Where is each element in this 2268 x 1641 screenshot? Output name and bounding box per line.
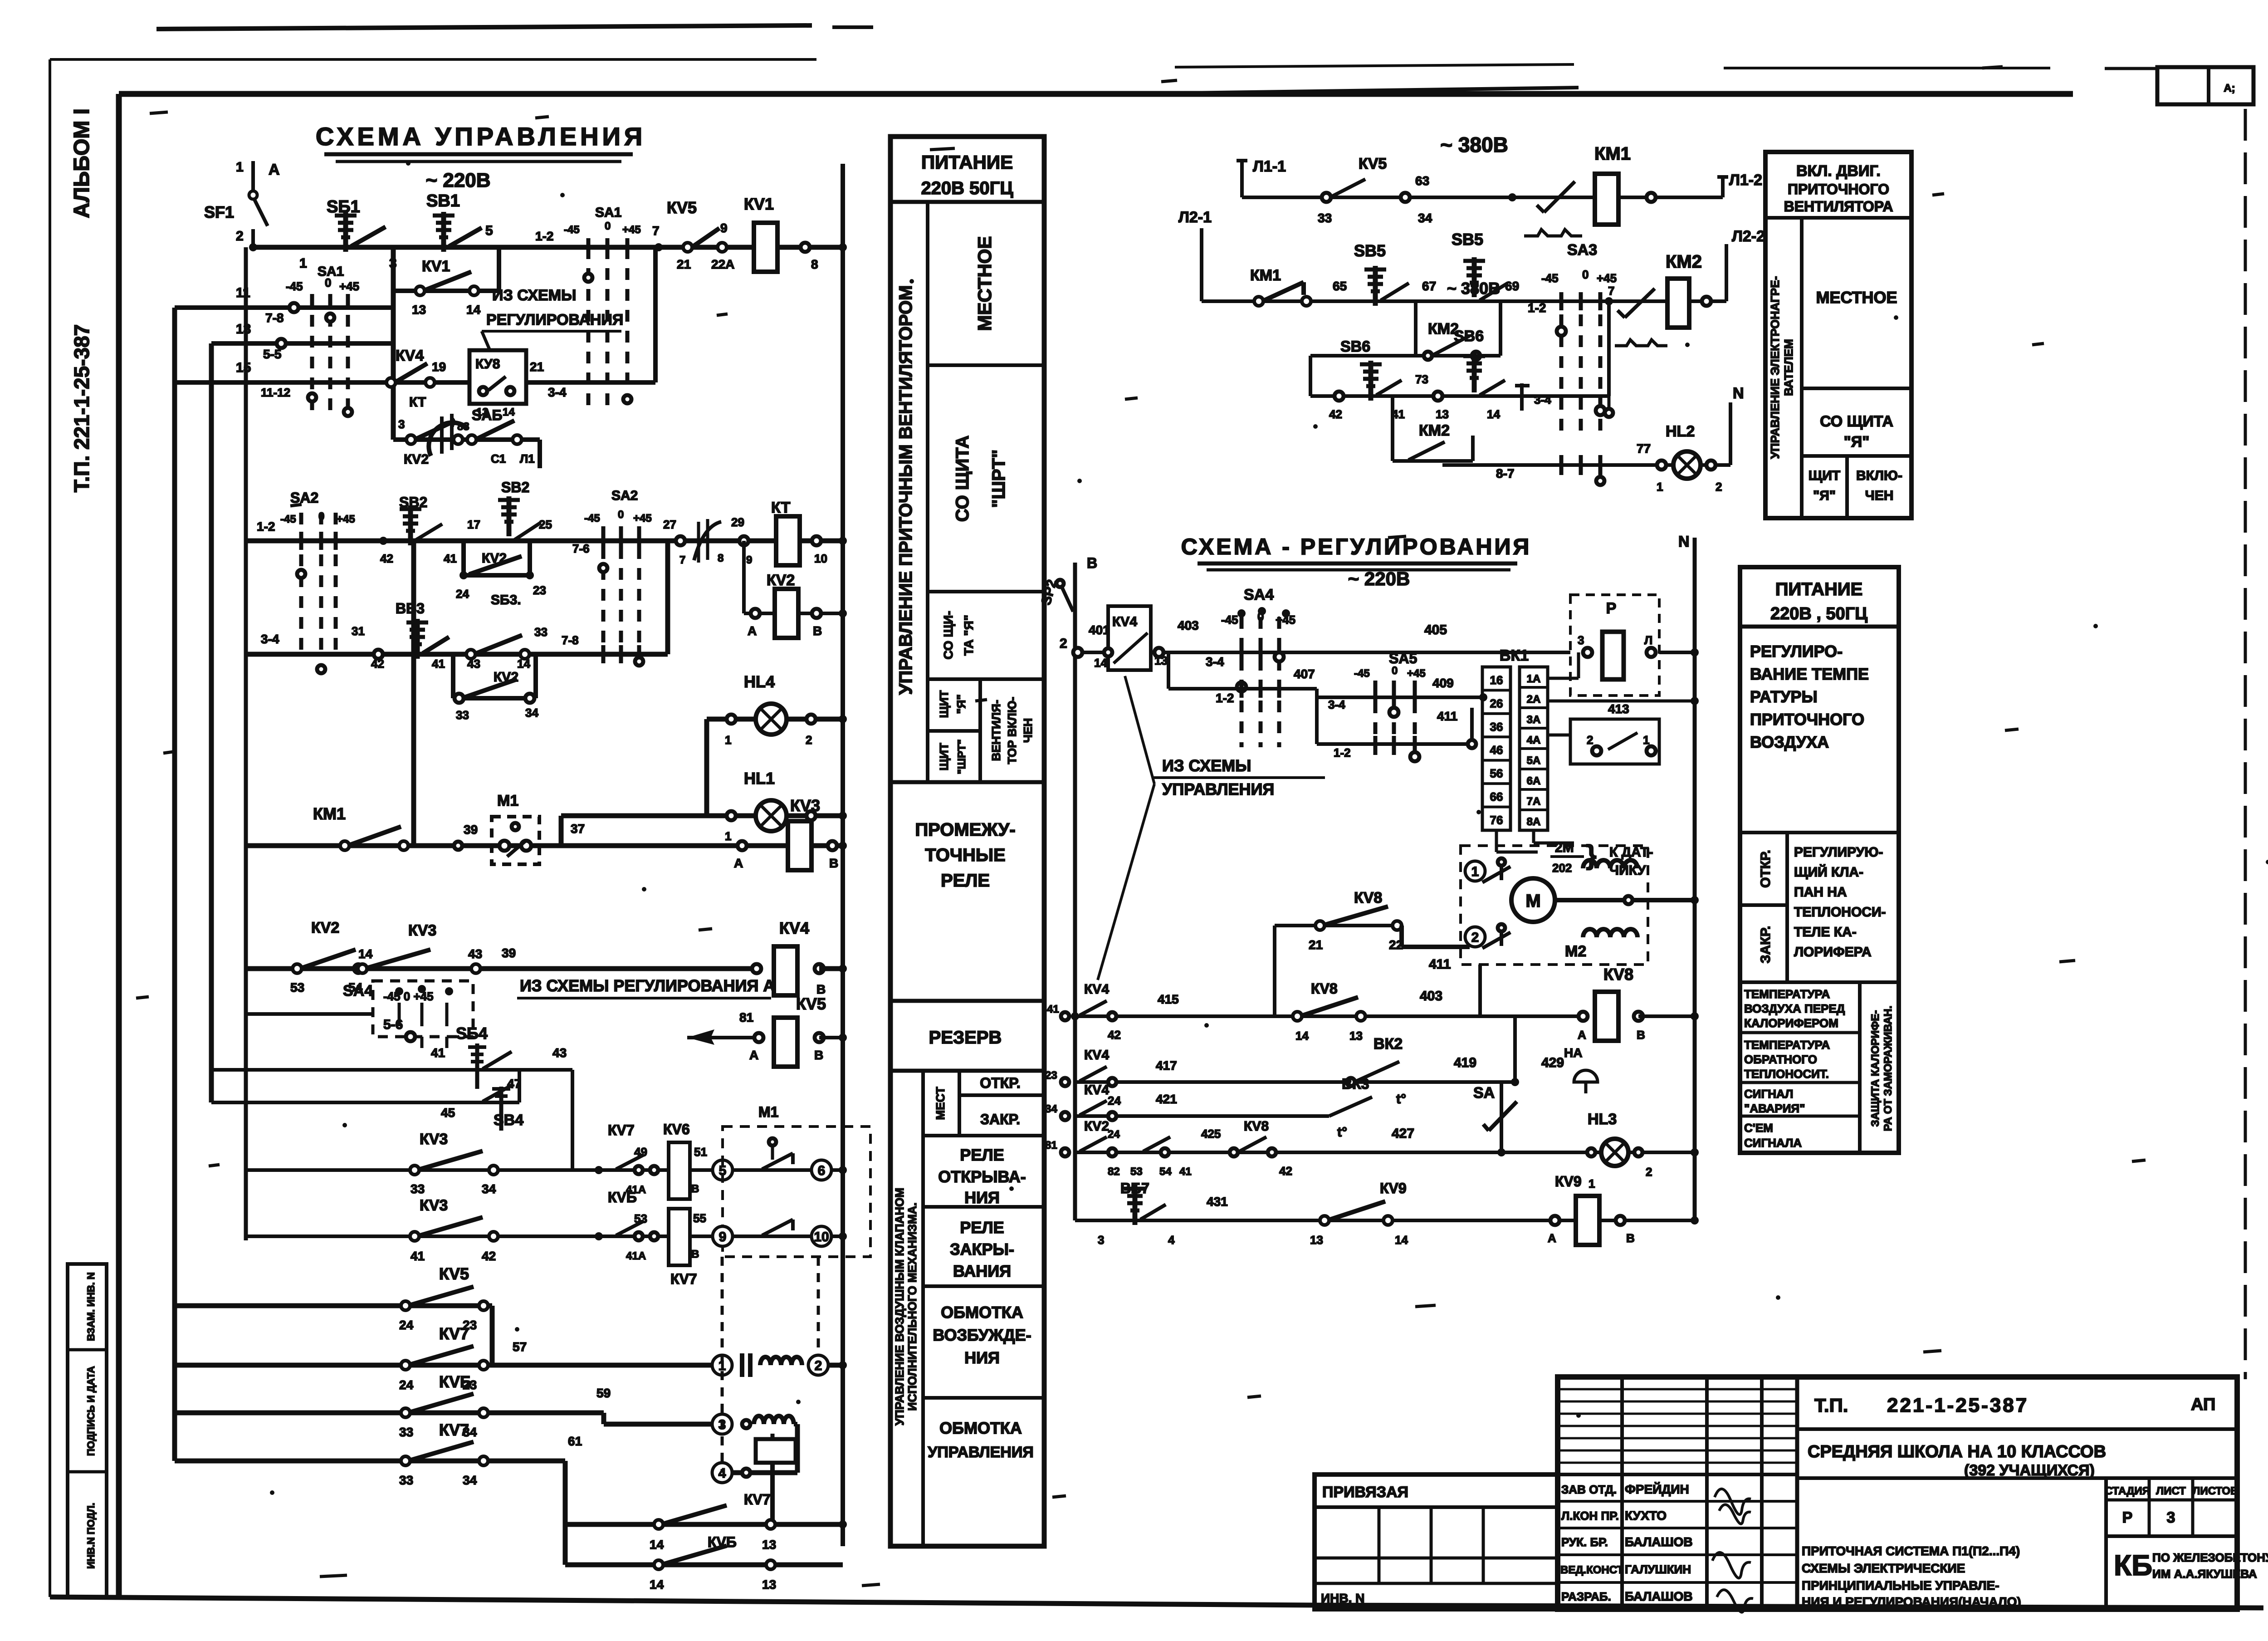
svg-text:2: 2 — [1646, 1165, 1652, 1179]
svg-text:33: 33 — [456, 708, 469, 722]
svg-text:КV3: КV3 — [420, 1197, 448, 1214]
svg-text:В: В — [1626, 1231, 1635, 1245]
svg-text:СХЕМА - РЕГУЛИРОВАНИЯ: СХЕМА - РЕГУЛИРОВАНИЯ — [1181, 534, 1532, 559]
svg-text:ТОЧНЫЕ: ТОЧНЫЕ — [925, 845, 1005, 865]
svg-text:407: 407 — [1294, 667, 1315, 681]
relay contact KV6 14-13 bottom — [565, 1563, 843, 1568]
svg-text:69: 69 — [1505, 279, 1519, 293]
svg-text:7: 7 — [1608, 284, 1614, 298]
svg-text:ВЕД.КОНСТ: ВЕД.КОНСТ — [1560, 1564, 1623, 1576]
svg-text:ОТКР.: ОТКР. — [980, 1075, 1020, 1091]
motor M1 terminal 4 row — [712, 1463, 732, 1483]
svg-text:8А: 8А — [1527, 816, 1541, 828]
svg-text:КVБ: КVБ — [708, 1534, 737, 1550]
svg-text:22А: 22А — [711, 257, 734, 271]
svg-text:ОТКР.: ОТКР. — [1758, 850, 1773, 888]
svg-text:19: 19 — [432, 360, 446, 374]
svg-text:43: 43 — [552, 1046, 567, 1060]
svg-text:SА4: SА4 — [1244, 586, 1274, 603]
svg-text:411: 411 — [1437, 709, 1457, 723]
svg-text:РЕГУЛИРОВАНИЯ: РЕГУЛИРОВАНИЯ — [486, 311, 623, 328]
svg-text:КV2: КV2 — [311, 919, 339, 936]
svg-text:33: 33 — [534, 625, 547, 639]
legend cell rele zakryvaniya — [923, 1205, 1044, 1209]
svg-text:УПРАВЛЕНИЕ ЭЛЕКТРОНАГРЕ-: УПРАВЛЕНИЕ ЭЛЕКТРОНАГРЕ- — [1768, 276, 1782, 459]
svg-text:45: 45 — [441, 1106, 455, 1120]
svg-text:9: 9 — [746, 554, 752, 566]
svg-text:КV2: КV2 — [482, 551, 507, 566]
svg-text:SА: SА — [1473, 1084, 1495, 1102]
svg-text:ИНВ. N: ИНВ. N — [1321, 1591, 1364, 1605]
motor M1 dashed enclosure — [723, 1127, 870, 1257]
svg-text:14: 14 — [466, 303, 481, 317]
svg-text:ОБМОТКА: ОБМОТКА — [939, 1419, 1022, 1437]
svg-text:t°: t° — [1337, 1125, 1347, 1140]
wire rung KV4 41-42 KV8 403 — [1075, 1014, 1583, 1018]
svg-text:73: 73 — [1415, 372, 1428, 386]
svg-text:59: 59 — [596, 1386, 611, 1400]
svg-text:КV8: КV8 — [1354, 889, 1382, 906]
svg-text:7: 7 — [652, 224, 660, 238]
svg-text:КV1: КV1 — [744, 195, 774, 213]
terminal L2-1 — [1200, 228, 1203, 301]
svg-text:202: 202 — [1552, 861, 1572, 875]
svg-text:29: 29 — [731, 515, 744, 529]
svg-text:14: 14 — [503, 406, 515, 418]
svg-text:"Я": "Я" — [954, 694, 968, 714]
svg-text:21: 21 — [1309, 938, 1323, 952]
legend cell so shchita shrt — [928, 590, 1044, 593]
wire lamp feeder vertical — [704, 719, 709, 816]
svg-text:ВК2: ВК2 — [1374, 1035, 1403, 1053]
legend cell mest otkr zakr — [958, 1071, 961, 1136]
svg-text:ПАН НА: ПАН НА — [1794, 885, 1847, 900]
svg-text:КV9: КV9 — [1380, 1180, 1407, 1196]
svg-text:ЩИЙ КЛА-: ЩИЙ КЛА- — [1794, 864, 1863, 880]
wire rung L2 row — [1202, 299, 1726, 303]
legend cells otkr zakr reguliruyushchiy klapan — [1740, 831, 1899, 834]
svg-text:ЗАВ ОТД.: ЗАВ ОТД. — [1561, 1483, 1617, 1496]
svg-text:БАЛАШОВ: БАЛАШОВ — [1625, 1535, 1693, 1549]
svg-text:0: 0 — [1392, 665, 1398, 677]
svg-text:КМ1: КМ1 — [313, 804, 346, 823]
svg-text:ТЕЛЕ КА-: ТЕЛЕ КА- — [1794, 925, 1857, 940]
contactor KM2 interlock — [1625, 289, 1655, 318]
svg-text:3-4: 3-4 — [1206, 655, 1224, 669]
svg-text:ЗАЩИТА КАЛОРИФЕ-: ЗАЩИТА КАЛОРИФЕ- — [1869, 1010, 1882, 1127]
svg-text:63: 63 — [1415, 174, 1429, 188]
svg-text:КV9: КV9 — [1555, 1173, 1582, 1190]
title block project number — [1797, 1427, 2237, 1431]
svg-text:КV4: КV4 — [1112, 614, 1137, 629]
motor M2 — [1511, 878, 1555, 922]
svg-text:КV3: КV3 — [408, 922, 436, 939]
svg-text:ЩИТ: ЩИТ — [1809, 468, 1840, 483]
wire step to SB6 row — [1309, 356, 1312, 396]
svg-text:КV4: КV4 — [396, 347, 424, 364]
svg-text:А: А — [269, 161, 280, 178]
svg-text:39: 39 — [464, 823, 478, 837]
legend cells shchit ya vklyuchen — [1845, 456, 1849, 518]
relay contact on SB3 row — [466, 650, 475, 659]
svg-text:6А: 6А — [1527, 775, 1541, 787]
svg-text:КV5: КV5 — [796, 994, 826, 1013]
svg-text:SАБ: SАБ — [472, 407, 502, 423]
legend column upravlenie vozdushnym klapanom — [921, 1071, 925, 1546]
border frame — [50, 58, 816, 61]
svg-text:РЕГУЛИРО-: РЕГУЛИРО- — [1750, 642, 1843, 661]
wire rung 409 — [1315, 689, 1319, 697]
svg-text:66: 66 — [1490, 790, 1503, 803]
svg-text:+45: +45 — [1597, 271, 1617, 285]
svg-text:1: 1 — [1657, 480, 1663, 494]
title block privyazya table — [1315, 1474, 1558, 1609]
svg-text:15: 15 — [236, 360, 251, 375]
svg-text:0: 0 — [618, 509, 624, 521]
svg-text:419: 419 — [1454, 1055, 1476, 1070]
svg-text:В: В — [1087, 555, 1097, 571]
wire rung KV1 aux — [393, 289, 499, 293]
svg-text:14: 14 — [650, 1577, 664, 1592]
svg-text:ЧЕН: ЧЕН — [1021, 718, 1035, 743]
svg-text:5А: 5А — [1527, 754, 1541, 767]
svg-text:М2: М2 — [1565, 943, 1586, 960]
wire rung KV6 33-34 — [175, 1411, 604, 1416]
legend table vkl dvig pritochnogo ventilyatora — [1765, 152, 1911, 518]
svg-text:3-4: 3-4 — [261, 632, 279, 646]
svg-text:81: 81 — [739, 1010, 753, 1024]
svg-text:РЕЗЕРВ: РЕЗЕРВ — [929, 1028, 1002, 1048]
svg-text:КV7: КV7 — [439, 1421, 469, 1439]
svg-text:УПРАВЛЕНИЕ ВОЗДУШНЫМ КЛАПАНО: УПРАВЛЕНИЕ ВОЗДУШНЫМ КЛАПАНОМ — [893, 1188, 906, 1425]
svg-text:ФРЕЙДИН: ФРЕЙДИН — [1625, 1482, 1689, 1496]
svg-text:34: 34 — [482, 1182, 496, 1196]
svg-text:0: 0 — [325, 276, 331, 289]
svg-text:А: А — [1548, 1231, 1556, 1245]
svg-text:В: В — [1637, 1028, 1645, 1042]
motor M1 limit contact 5-6 — [713, 1160, 733, 1180]
svg-text:429: 429 — [1541, 1055, 1564, 1070]
svg-text:415: 415 — [1158, 992, 1179, 1006]
svg-text:ТА "Я": ТА "Я" — [962, 615, 976, 656]
svg-text:21: 21 — [530, 360, 544, 374]
svg-text:"АВАРИЯ": "АВАРИЯ" — [1744, 1102, 1805, 1115]
wire rung SB7 431 KV9 — [1075, 1219, 1695, 1222]
svg-text:ЩИТ: ЩИТ — [937, 743, 951, 770]
svg-text:SА2: SА2 — [611, 488, 638, 503]
svg-text:17: 17 — [467, 518, 480, 531]
svg-text:КМ2: КМ2 — [1666, 252, 1702, 272]
svg-text:SА5: SА5 — [1389, 650, 1417, 666]
svg-text:+45: +45 — [1407, 667, 1426, 680]
svg-text:34: 34 — [1418, 211, 1432, 225]
svg-text:А: А — [734, 856, 743, 870]
svg-text:~ 380В: ~ 380В — [1440, 133, 1508, 157]
svg-text:ПРИТОЧНОГО: ПРИТОЧНОГО — [1750, 710, 1864, 729]
svg-text:НИЯ: НИЯ — [964, 1188, 1000, 1207]
svg-text:РАЗРАБ.: РАЗРАБ. — [1561, 1590, 1611, 1603]
svg-text:КМ1: КМ1 — [1250, 267, 1281, 284]
svg-text:КТ: КТ — [409, 395, 426, 410]
relay contact KV2 sub rung 24-23 — [464, 573, 530, 578]
svg-text:3-4: 3-4 — [548, 385, 567, 399]
svg-text:СХЕМА УПРАВЛЕНИЯ: СХЕМА УПРАВЛЕНИЯ — [316, 122, 646, 151]
wire rung KV2 81-82 425 427 — [1075, 1151, 1695, 1154]
svg-text:14: 14 — [358, 947, 373, 961]
svg-text:7-8: 7-8 — [562, 633, 579, 647]
svg-text:14: 14 — [1295, 1029, 1309, 1043]
svg-text:"Я": "Я" — [1844, 433, 1870, 451]
svg-text:КV7: КV7 — [670, 1271, 697, 1287]
svg-text:РУК. БР.: РУК. БР. — [1561, 1535, 1608, 1549]
svg-text:КV4: КV4 — [1084, 1048, 1109, 1063]
sheet number corner box — [2157, 67, 2253, 104]
svg-text:SВ6: SВ6 — [1454, 328, 1484, 345]
svg-text:СИГНАЛА: СИГНАЛА — [1744, 1136, 1802, 1150]
svg-text:24: 24 — [399, 1318, 414, 1332]
svg-text:ВК3: ВК3 — [1342, 1076, 1369, 1092]
svg-text:МЕСТНОЕ: МЕСТНОЕ — [974, 236, 995, 331]
svg-text:ТЕПЛОНОСИТ.: ТЕПЛОНОСИТ. — [1744, 1067, 1829, 1081]
svg-text:-45: -45 — [1541, 271, 1559, 285]
svg-text:SВ5: SВ5 — [1354, 241, 1386, 260]
svg-text:24: 24 — [1108, 1094, 1121, 1107]
svg-text:SВ2: SВ2 — [501, 479, 529, 495]
svg-text:431: 431 — [1207, 1195, 1228, 1209]
svg-text:1: 1 — [725, 733, 731, 747]
wire lamp HL1 row — [707, 813, 843, 818]
svg-text:421: 421 — [1156, 1092, 1177, 1106]
svg-text:Р: Р — [2122, 1509, 2133, 1526]
svg-text:ПИТАНИЕ: ПИТАНИЕ — [921, 152, 1013, 173]
svg-text:3: 3 — [1098, 1233, 1104, 1247]
control winding resistor box — [756, 1439, 796, 1463]
wire rung 11 7-8 — [175, 305, 393, 310]
contactor contact KM2 loop — [1391, 396, 1394, 461]
wire rung SB3 row — [246, 652, 668, 657]
svg-text:43: 43 — [468, 947, 482, 961]
svg-text:3: 3 — [389, 256, 397, 271]
svg-text:42: 42 — [1329, 407, 1342, 421]
svg-text:7-8: 7-8 — [265, 311, 283, 325]
svg-text:53: 53 — [1130, 1166, 1143, 1178]
svg-text:409: 409 — [1432, 676, 1454, 690]
svg-text:24: 24 — [399, 1378, 414, 1392]
svg-text:УПРАВЛЕНИЯ: УПРАВЛЕНИЯ — [928, 1444, 1034, 1461]
svg-text:А;: А; — [2224, 82, 2235, 94]
bus ladder right rail B — [841, 164, 845, 1546]
svg-text:41: 41 — [1179, 1166, 1192, 1178]
svg-text:НL4: НL4 — [744, 672, 775, 691]
svg-text:5: 5 — [485, 223, 493, 238]
svg-text:КV5: КV5 — [1359, 155, 1387, 172]
timer contact KT — [694, 522, 721, 560]
svg-text:2: 2 — [1060, 636, 1067, 651]
svg-text:SБ4: SБ4 — [456, 1024, 488, 1043]
svg-text:41: 41 — [1047, 1003, 1059, 1015]
svg-text:СО ЩИТА: СО ЩИТА — [953, 436, 973, 522]
svg-text:Л2-1: Л2-1 — [1178, 209, 1212, 226]
svg-text:2: 2 — [806, 733, 812, 747]
svg-text:+45: +45 — [339, 279, 359, 293]
bus ladder left rail — [411, 541, 416, 846]
svg-text:АЛЬБОМ I: АЛЬБОМ I — [70, 108, 94, 218]
svg-text:SБ3.: SБ3. — [491, 593, 521, 607]
svg-text:8: 8 — [811, 257, 818, 271]
legend cells temperatures and signals — [1740, 980, 1899, 984]
svg-text:Р: Р — [1606, 600, 1617, 617]
legend column upravlenie elektronagrevatelem — [1800, 218, 1804, 518]
svg-text:27: 27 — [663, 518, 676, 531]
svg-text:РАТУРЫ: РАТУРЫ — [1750, 687, 1818, 706]
svg-text:33: 33 — [399, 1425, 413, 1439]
relay block KV8 — [469, 350, 526, 404]
svg-text:9: 9 — [719, 1230, 727, 1244]
bus left return 1 — [172, 308, 177, 1461]
svg-text:220В , 50ГЦ: 220В , 50ГЦ — [1770, 604, 1867, 623]
svg-text:76: 76 — [1490, 813, 1503, 827]
wire rung HL2 row — [1442, 463, 1730, 467]
svg-text:7-6: 7-6 — [572, 542, 590, 555]
svg-text:М1: М1 — [497, 792, 518, 809]
svg-text:SА4: SА4 — [343, 982, 373, 999]
svg-text:+45: +45 — [622, 224, 641, 236]
wire rung KV2 SA6 — [393, 437, 540, 442]
svg-text:34: 34 — [525, 706, 538, 720]
svg-text:СРЕДНЯЯ ШКОЛА НА 10: СРЕДНЯЯ ШКОЛА НА 10 КЛАССОВ — [1808, 1442, 2106, 1461]
wire rung KV7 33-34 lower — [175, 1459, 565, 1464]
legend cell so shchita ya (right) — [1802, 454, 1911, 458]
bus regulation left B — [1073, 563, 1077, 1220]
svg-text:РЕЛЕ: РЕЛЕ — [960, 1218, 1004, 1237]
svg-text:16: 16 — [1490, 673, 1503, 687]
svg-text:8-7: 8-7 — [1496, 466, 1514, 480]
svg-text:В: В — [829, 856, 838, 870]
svg-text:39: 39 — [502, 946, 516, 960]
svg-text:ВОЗДУХА ПЕРЕД: ВОЗДУХА ПЕРЕД — [1744, 1002, 1845, 1015]
svg-text:1: 1 — [725, 829, 731, 843]
svg-text:1-2: 1-2 — [1216, 691, 1234, 705]
svg-text:ЛИСТ: ЛИСТ — [2156, 1485, 2186, 1497]
svg-text:КV4: КV4 — [779, 919, 809, 937]
svg-text:1-2: 1-2 — [257, 519, 275, 534]
svg-text:43: 43 — [467, 657, 480, 671]
svg-text:ИМ А.А.ЯКУШЕВА: ИМ А.А.ЯКУШЕВА — [2152, 1567, 2257, 1581]
svg-text:НИЯ: НИЯ — [964, 1348, 1000, 1367]
svg-text:НА: НА — [1564, 1046, 1582, 1060]
svg-text:1: 1 — [1589, 1177, 1595, 1190]
svg-text:А: А — [1578, 1028, 1586, 1042]
svg-text:ГАЛУШКИН: ГАЛУШКИН — [1625, 1563, 1691, 1576]
svg-text:Л1: Л1 — [520, 452, 535, 465]
svg-text:ВБ3: ВБ3 — [396, 600, 425, 617]
svg-text:427: 427 — [1392, 1126, 1414, 1141]
relay coil KV7 closing — [669, 1209, 690, 1265]
svg-text:Л: Л — [1644, 633, 1652, 647]
svg-text:-45: -45 — [584, 512, 600, 524]
svg-text:ВКЛЮ-: ВКЛЮ- — [1856, 468, 1902, 483]
svg-text:13: 13 — [1349, 1029, 1363, 1043]
relay changeover contact KV4 (box) — [1108, 606, 1151, 670]
svg-text:-45: -45 — [286, 279, 303, 293]
svg-text:(392 УЧАЩИХСЯ): (392 УЧАЩИХСЯ) — [1964, 1462, 2095, 1479]
svg-text:КV8: КV8 — [1311, 980, 1338, 997]
wire rung KV4 34 VK3 421 — [1075, 1114, 1329, 1118]
svg-text:Т.П. 221-1-25-387: Т.П. 221-1-25-387 — [70, 324, 93, 493]
wire rung SB4 45-47 — [211, 1101, 519, 1104]
wire rung KV2 KV3 to KV4 — [246, 966, 757, 971]
relay contact KV2 lower — [406, 435, 415, 444]
svg-text:N: N — [1678, 533, 1690, 550]
svg-text:КV7: КV7 — [744, 1491, 771, 1508]
svg-text:С1: С1 — [491, 452, 506, 465]
svg-text:КУХТО: КУХТО — [1625, 1509, 1667, 1523]
svg-text:КV5: КV5 — [439, 1264, 469, 1283]
svg-text:46: 46 — [1490, 743, 1503, 757]
svg-text:403: 403 — [1420, 989, 1442, 1004]
svg-text:220В 50ГЦ: 220В 50ГЦ — [921, 178, 1013, 198]
svg-text:ВЕНТИЛЯТОРА: ВЕНТИЛЯТОРА — [1784, 198, 1893, 215]
svg-text:51: 51 — [694, 1145, 707, 1159]
svg-text:36: 36 — [1490, 720, 1503, 734]
terminal L1-1 — [1240, 161, 1244, 197]
svg-text:М1: М1 — [758, 1104, 778, 1120]
svg-text:С'ЕМ: С'ЕМ — [1744, 1121, 1773, 1135]
wire rung SB4 41-43 — [211, 1068, 572, 1072]
svg-text:КV7: КV7 — [439, 1324, 469, 1343]
svg-text:23: 23 — [533, 583, 546, 597]
svg-text:ВЗАМ. ИНВ. N: ВЗАМ. ИНВ. N — [85, 1272, 97, 1341]
bus left return 2 — [209, 343, 214, 1102]
svg-text:1: 1 — [1471, 864, 1479, 879]
wire rung 81 KV5 — [687, 1029, 714, 1045]
svg-text:56: 56 — [1490, 767, 1503, 780]
svg-text:-45: -45 — [1221, 613, 1238, 627]
svg-text:11: 11 — [236, 285, 250, 300]
wire rung 5-6 — [246, 1012, 373, 1016]
svg-text:ПРИВЯЗАЯ: ПРИВЯЗАЯ — [1322, 1484, 1408, 1501]
svg-text:3: 3 — [2167, 1509, 2175, 1526]
wire rung 411 — [1315, 697, 1319, 744]
svg-text:КТ: КТ — [771, 499, 791, 516]
bottom-left stamp column — [68, 1264, 107, 1597]
svg-text:SВ1: SВ1 — [426, 191, 460, 211]
wire rung SA2 SB2 KT — [246, 539, 843, 544]
svg-text:14: 14 — [1487, 407, 1500, 421]
svg-text:1: 1 — [1643, 733, 1649, 747]
svg-text:ТЕПЛОНОСИ-: ТЕПЛОНОСИ- — [1794, 905, 1886, 920]
svg-text:14: 14 — [1094, 656, 1107, 670]
svg-text:54: 54 — [1159, 1166, 1172, 1178]
svg-text:РЕЛЕ: РЕЛЕ — [960, 1146, 1004, 1164]
wire regulation feed row — [1075, 651, 1570, 654]
svg-text:+45: +45 — [337, 513, 355, 525]
svg-text:МЕСТНОЕ: МЕСТНОЕ — [1816, 288, 1897, 307]
svg-text:49: 49 — [634, 1145, 647, 1159]
svg-text:ПОДПИСЬ И ДАТА: ПОДПИСЬ И ДАТА — [85, 1366, 97, 1456]
svg-text:МЕСТ: МЕСТ — [934, 1087, 947, 1120]
svg-text:ВК1: ВК1 — [1500, 647, 1529, 664]
svg-text:ТОР ВКЛЮ-: ТОР ВКЛЮ- — [1005, 697, 1019, 764]
svg-text:"ШРТ": "ШРТ" — [956, 739, 968, 774]
svg-text:КV1: КV1 — [422, 258, 450, 275]
svg-text:СО ЩИТА: СО ЩИТА — [1820, 413, 1893, 430]
svg-text:БАЛАШОВ: БАЛАШОВ — [1625, 1589, 1693, 1603]
svg-text:13: 13 — [1436, 407, 1449, 421]
svg-text:1: 1 — [236, 160, 244, 175]
svg-text:СТАДИЯ: СТАДИЯ — [2105, 1485, 2150, 1497]
svg-text:411: 411 — [1429, 957, 1451, 972]
